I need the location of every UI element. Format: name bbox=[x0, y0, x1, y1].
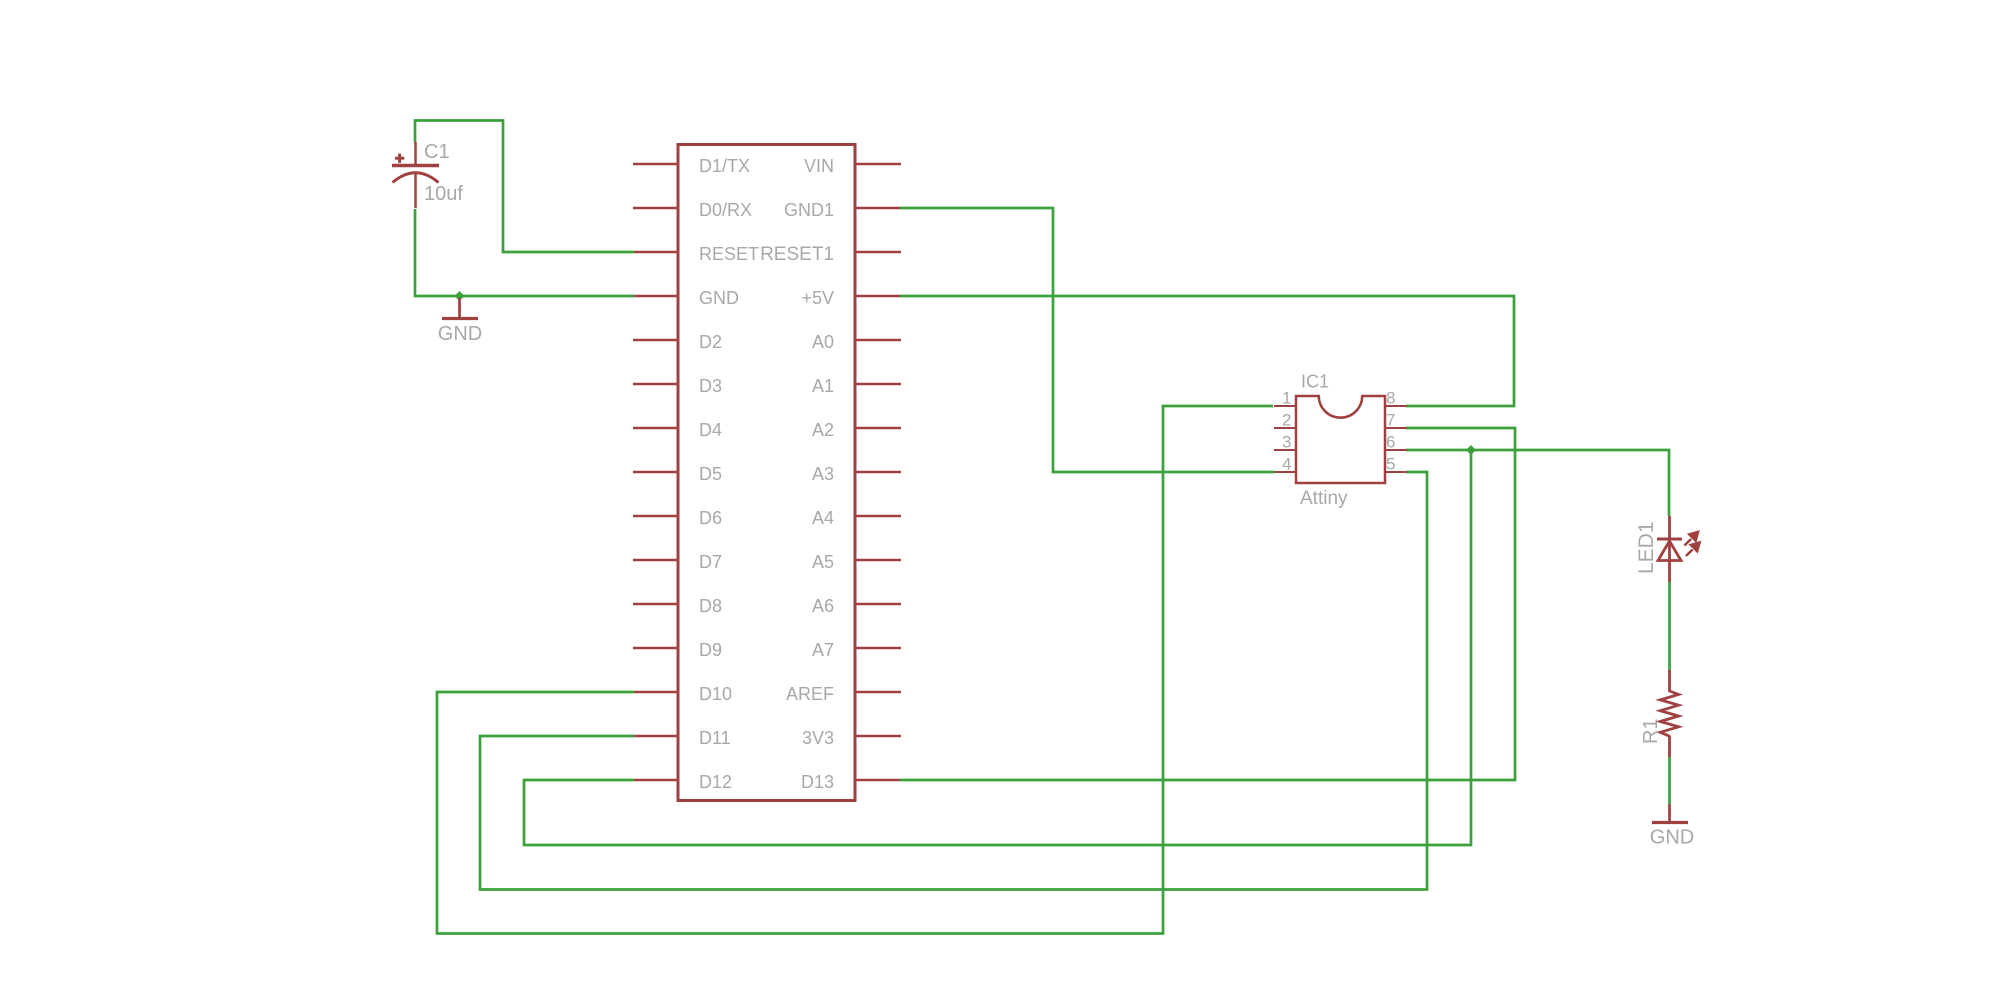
pin D4 bbox=[633, 427, 679, 430]
svg-text:D0/RX: D0/RX bbox=[699, 200, 752, 220]
Arduino right pins bbox=[855, 164, 901, 780]
svg-text:10uf: 10uf bbox=[424, 183, 463, 205]
svg-text:8: 8 bbox=[1386, 389, 1395, 408]
resistor R1 bbox=[1660, 670, 1678, 757]
pin D11 bbox=[634, 735, 679, 738]
svg-text:6: 6 bbox=[1386, 433, 1395, 452]
svg-text:D12: D12 bbox=[699, 772, 732, 792]
pin 4 bbox=[1274, 471, 1296, 473]
svg-text:1: 1 bbox=[1282, 389, 1291, 408]
wire RESET net (C1 top to RESET pin) bbox=[415, 121, 634, 253]
pin A2 bbox=[855, 427, 901, 430]
pin D10 bbox=[634, 691, 679, 694]
pin D1/TX bbox=[633, 163, 679, 166]
pin GND bbox=[634, 295, 679, 298]
svg-text:A7: A7 bbox=[812, 640, 834, 660]
svg-text:D3: D3 bbox=[699, 376, 722, 396]
svg-text:D1/TX: D1/TX bbox=[699, 156, 750, 176]
pin GND1 bbox=[855, 207, 900, 210]
junction LED net bbox=[1466, 445, 1476, 455]
svg-text:A0: A0 bbox=[812, 332, 834, 352]
IC1 right pins bbox=[1385, 406, 1407, 472]
pin D0/RX bbox=[633, 207, 679, 210]
svg-text:IC1: IC1 bbox=[1301, 372, 1329, 392]
Arduino module U1 body bbox=[678, 145, 855, 801]
svg-text:A5: A5 bbox=[812, 552, 834, 572]
svg-text:A1: A1 bbox=[812, 376, 834, 396]
pin 3 bbox=[1274, 449, 1296, 451]
svg-text:A3: A3 bbox=[812, 464, 834, 484]
Arduino right pin labels bbox=[760, 156, 834, 792]
svg-text:+5V: +5V bbox=[801, 288, 834, 308]
pin RESET1 bbox=[855, 251, 901, 254]
pin D8 bbox=[633, 603, 679, 606]
pin A3 bbox=[855, 471, 901, 474]
ground GND (left) bbox=[442, 298, 478, 319]
capacitor C1 bbox=[392, 142, 439, 208]
svg-text:Attiny: Attiny bbox=[1300, 488, 1348, 509]
wire GND net (C1 bottom to GND pin) bbox=[415, 209, 634, 296]
wire D13 net (to IC1 pin 7) bbox=[900, 428, 1515, 780]
wire D10 net (to IC1 pin 1) bbox=[437, 406, 1273, 934]
LED LED1 bbox=[1657, 516, 1682, 582]
svg-text:A4: A4 bbox=[812, 508, 834, 528]
svg-text:GND: GND bbox=[438, 323, 482, 345]
pin D12 bbox=[634, 779, 679, 782]
svg-text:D13: D13 bbox=[801, 772, 834, 792]
wire GND1 net (to IC1 pin 4) bbox=[900, 208, 1274, 472]
svg-text:A6: A6 bbox=[812, 596, 834, 616]
svg-text:D10: D10 bbox=[699, 684, 732, 704]
svg-text:C1: C1 bbox=[424, 141, 450, 163]
pin 3V3 bbox=[855, 735, 901, 738]
svg-text:A2: A2 bbox=[812, 420, 834, 440]
pin 8 bbox=[1385, 405, 1407, 407]
svg-text:4: 4 bbox=[1282, 455, 1291, 474]
wire R1 to GND bbox=[1668, 756, 1671, 805]
pin A6 bbox=[855, 603, 901, 606]
pin D5 bbox=[633, 471, 679, 474]
junction GND net bbox=[455, 291, 465, 301]
pin D6 bbox=[633, 515, 679, 518]
wire LED1 cathode to R1 bbox=[1668, 581, 1671, 672]
pin D7 bbox=[633, 559, 679, 562]
svg-text:D2: D2 bbox=[699, 332, 722, 352]
svg-text:3V3: 3V3 bbox=[802, 728, 834, 748]
Arduino left pin labels bbox=[699, 156, 759, 792]
pin 7 bbox=[1385, 427, 1407, 429]
pin 5 bbox=[1385, 471, 1407, 473]
svg-text:AREF: AREF bbox=[786, 684, 834, 704]
svg-text:D5: D5 bbox=[699, 464, 722, 484]
op IC1 Attiny body bbox=[1296, 396, 1385, 483]
wire LED net (IC1 pin 6 to LED1) bbox=[1406, 450, 1669, 516]
pin D9 bbox=[633, 647, 679, 650]
svg-text:D4: D4 bbox=[699, 420, 722, 440]
pin 2 bbox=[1274, 427, 1296, 429]
pin A5 bbox=[855, 559, 901, 562]
pin D3 bbox=[633, 383, 679, 386]
ground GND (right) bbox=[1652, 804, 1688, 823]
pin D13 bbox=[855, 779, 900, 782]
svg-text:D9: D9 bbox=[699, 640, 722, 660]
svg-text:D7: D7 bbox=[699, 552, 722, 572]
svg-text:5: 5 bbox=[1386, 455, 1395, 474]
wire D11 net (to IC1 pin 5) bbox=[480, 472, 1427, 890]
svg-text:RESET1: RESET1 bbox=[760, 244, 834, 265]
svg-text:R1: R1 bbox=[1640, 718, 1662, 744]
pin RESET bbox=[634, 251, 679, 254]
svg-text:7: 7 bbox=[1386, 411, 1395, 430]
svg-text:3: 3 bbox=[1282, 433, 1291, 452]
wire D12 net (to junction on LED net) bbox=[524, 450, 1471, 845]
svg-text:D8: D8 bbox=[699, 596, 722, 616]
IC1 left pins bbox=[1274, 406, 1296, 472]
pin A0 bbox=[855, 339, 901, 342]
svg-text:VIN: VIN bbox=[804, 156, 834, 176]
svg-text:GND1: GND1 bbox=[784, 200, 834, 220]
wire +5V net (to IC1 pin 8) bbox=[900, 296, 1514, 406]
pin VIN bbox=[855, 163, 901, 166]
pin 6 bbox=[1385, 449, 1407, 451]
svg-text:LED1: LED1 bbox=[1635, 521, 1658, 574]
pin 1 bbox=[1274, 405, 1296, 407]
Arduino left pins bbox=[633, 164, 679, 780]
svg-text:D6: D6 bbox=[699, 508, 722, 528]
pin A1 bbox=[855, 383, 901, 386]
svg-text:D11: D11 bbox=[699, 728, 731, 748]
pin +5V bbox=[855, 295, 900, 298]
pin AREF bbox=[855, 691, 901, 694]
pin D2 bbox=[633, 339, 679, 342]
IC1 pin numbers bbox=[1282, 389, 1395, 474]
pin A4 bbox=[855, 515, 901, 518]
pin A7 bbox=[855, 647, 901, 650]
LED1 arrows bbox=[1685, 532, 1700, 556]
svg-text:RESET: RESET bbox=[699, 244, 759, 264]
svg-text:GND: GND bbox=[699, 288, 739, 308]
svg-text:2: 2 bbox=[1282, 411, 1291, 430]
svg-text:GND: GND bbox=[1650, 827, 1694, 849]
